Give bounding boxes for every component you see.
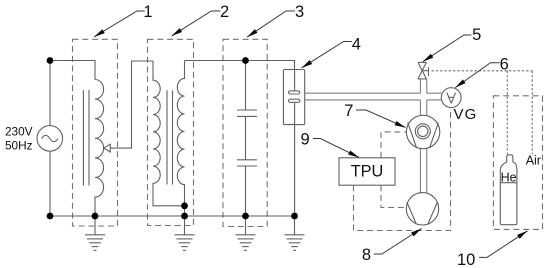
leader line label 5 [423, 35, 472, 62]
rotary pump 8 [406, 193, 438, 225]
dotted Air feed line [531, 71, 533, 154]
pipe pump 7 to pump 8 [419, 148, 421, 193]
svg-text:10: 10 [457, 251, 475, 268]
node B top rail at capacitors [242, 57, 249, 64]
svg-text:4: 4 [352, 36, 361, 54]
svg-text:He: He [501, 171, 517, 185]
node F bottom rail at transformer [181, 213, 188, 220]
leader line label 8 [374, 229, 422, 255]
node G bottom rail at capacitors [242, 213, 249, 220]
svg-text:Air: Air [526, 154, 541, 168]
wire AC source vertical bottom [49, 151, 51, 216]
wire reactor inlet to upper electrode [294, 70, 296, 91]
leader line label 6 [455, 63, 499, 88]
dashed signal line TPU to turbo pump 7 [381, 132, 406, 158]
transformer T2 core [166, 90, 168, 184]
DBD reactor cell 4 [283, 70, 304, 125]
transformer T2 secondary winding [177, 61, 184, 217]
capacitor C1 [245, 61, 247, 111]
ground below box 2 [175, 216, 195, 250]
dashed enclosure box 1 (variac) [73, 39, 118, 226]
TPU controller box 9 [339, 158, 395, 185]
leader line label 2 [172, 11, 221, 36]
dashed enclosure box 2 (transformer) [148, 39, 194, 225]
wire top rail right: secondary top to reactor, node at capacitors [185, 61, 295, 70]
node E transformer windings junction [181, 202, 188, 209]
svg-text:8: 8 [362, 246, 371, 264]
svg-text:TPU: TPU [351, 163, 384, 181]
ground below box 1 [85, 216, 105, 250]
wire capacitor bottom [245, 166, 247, 216]
pipe stub to vacuum gauge [427, 92, 442, 94]
capacitor C2 [245, 116, 247, 159]
turbo pump 7 [406, 115, 439, 148]
electrode upper [289, 91, 300, 94]
wire lower electrode to reactor outlet [294, 102, 296, 124]
valve 5 [418, 62, 429, 79]
wire bottom rail [50, 215, 295, 217]
wire top rail left: node to variac top [50, 61, 95, 80]
wire AC source vertical top [49, 61, 51, 126]
variac T1 core [82, 90, 84, 186]
leader line label 3 [247, 11, 295, 37]
ground at rail end [285, 216, 305, 250]
wire reactor bottom to rail [294, 125, 296, 216]
dashed enclosure box 10 (gas supply) [493, 96, 542, 230]
dashed signal line TPU to vacuum gauge [354, 108, 451, 231]
AC source V1 230V 50Hz [37, 126, 63, 152]
svg-text:50Hz: 50Hz [5, 138, 33, 152]
svg-text:6: 6 [500, 56, 509, 74]
dotted gas feed line from valve [432, 71, 533, 155]
variac wiper arrow [104, 144, 111, 152]
svg-text:230V: 230V [5, 124, 33, 138]
electrode lower [289, 99, 300, 102]
svg-text:3: 3 [295, 3, 304, 21]
dotted He feed line [506, 71, 508, 155]
leader line label 9 [313, 139, 359, 158]
vacuum gauge VG 6 [441, 88, 461, 108]
pipe horizontal reactor to pump branch [304, 79, 441, 194]
node A top rail at source [47, 57, 54, 64]
He gas cylinder [500, 155, 517, 225]
node H bottom rail end [291, 213, 298, 220]
leader line label 4 [302, 42, 352, 68]
node C bottom rail at source [47, 213, 54, 220]
transformer T2 primary winding [153, 61, 185, 206]
svg-text:5: 5 [472, 26, 481, 44]
variac T1 winding [95, 80, 104, 217]
svg-text:9: 9 [301, 131, 310, 149]
dashed enclosure box 3 (capacitor bank) [223, 39, 267, 226]
svg-text:VG: VG [454, 106, 478, 123]
wire wiper to transformer primary [110, 61, 153, 148]
leader line label 7 [356, 110, 406, 128]
svg-text:2: 2 [220, 3, 229, 21]
dashed signal line TPU to rotary pump 8 [381, 185, 406, 207]
ground below box 3 [236, 216, 256, 250]
svg-text:7: 7 [344, 102, 353, 120]
pipe vertical valve to pump 7 [419, 79, 421, 94]
leader line label 10 [479, 231, 528, 258]
svg-text:1: 1 [143, 3, 152, 21]
leader line label 1 [94, 11, 145, 37]
node D bottom rail at variac [92, 213, 99, 220]
